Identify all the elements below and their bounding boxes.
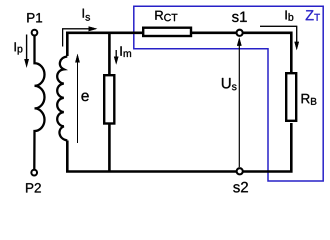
label RB bbox=[302, 94, 317, 105]
secondary winding coil (6 turns, bulge left) bbox=[57, 57, 67, 141]
label Im bbox=[120, 46, 131, 57]
arrow e (emf, up) bbox=[75, 54, 80, 143]
arrow e (emf, up) bbox=[75, 54, 80, 143]
wire magnetizing branch vertical bbox=[108, 33, 111, 172]
label RCT bbox=[155, 11, 177, 21]
resistor RCT (box) bbox=[143, 28, 191, 36]
arrow Ip (primary current, down) bbox=[24, 35, 29, 69]
label s1 bbox=[232, 12, 247, 22]
terminal P1 bbox=[32, 30, 38, 36]
label P1 bbox=[27, 13, 42, 22]
arrow Ib (burden current, L-shaped down) bbox=[260, 26, 299, 50]
label Ib bbox=[286, 10, 294, 20]
node s2 bbox=[237, 168, 243, 174]
arrow Im (magnetizing current, down) bbox=[114, 50, 119, 65]
wire top rail: from secondary coil top up and right to R_B bbox=[67, 33, 291, 72]
wire bottom rail: from secondary coil bottom right to R_B bbox=[67, 123, 291, 172]
label Ip bbox=[15, 42, 23, 54]
label s2 bbox=[233, 182, 248, 193]
arrow Is (secondary current, L-shaped right) bbox=[63, 26, 98, 46]
resistor RB burden (box) bbox=[286, 73, 296, 121]
label Us bbox=[222, 78, 237, 90]
label P2 bbox=[26, 183, 41, 192]
primary winding coil (3 turns, bulge right) bbox=[34, 36, 44, 169]
arrow Us (secondary voltage, up from s2 to s1) bbox=[237, 37, 242, 167]
label e bbox=[81, 93, 88, 101]
label ZT bbox=[306, 10, 320, 20]
arrow Im (magnetizing current, down) bbox=[114, 50, 119, 65]
magnetizing impedance box bbox=[104, 75, 114, 123]
arrow Us (secondary voltage, up from s2 to s1) bbox=[237, 37, 242, 167]
node s1 bbox=[237, 30, 243, 36]
boundary Z_T (blue outline) bbox=[134, 6, 323, 181]
terminal P2 bbox=[31, 170, 37, 176]
arrow Ib (burden current, L-shaped down) bbox=[260, 26, 299, 50]
arrow Is (secondary current, L-shaped right) bbox=[63, 26, 98, 46]
label Is bbox=[83, 9, 90, 21]
